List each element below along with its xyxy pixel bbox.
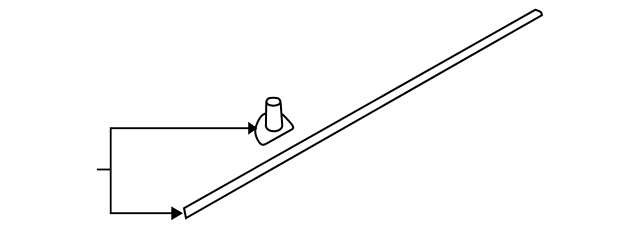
- clip stud cylinder: [266, 102, 282, 131]
- clip stud top: [266, 98, 280, 106]
- arrowhead to clip: [248, 122, 257, 135]
- molding strip body: [184, 10, 542, 218]
- leader bracket: [111, 128, 249, 213]
- arrowhead to strip: [171, 206, 183, 220]
- leader tick: [97, 169, 111, 171]
- clip base flange: [255, 112, 293, 145]
